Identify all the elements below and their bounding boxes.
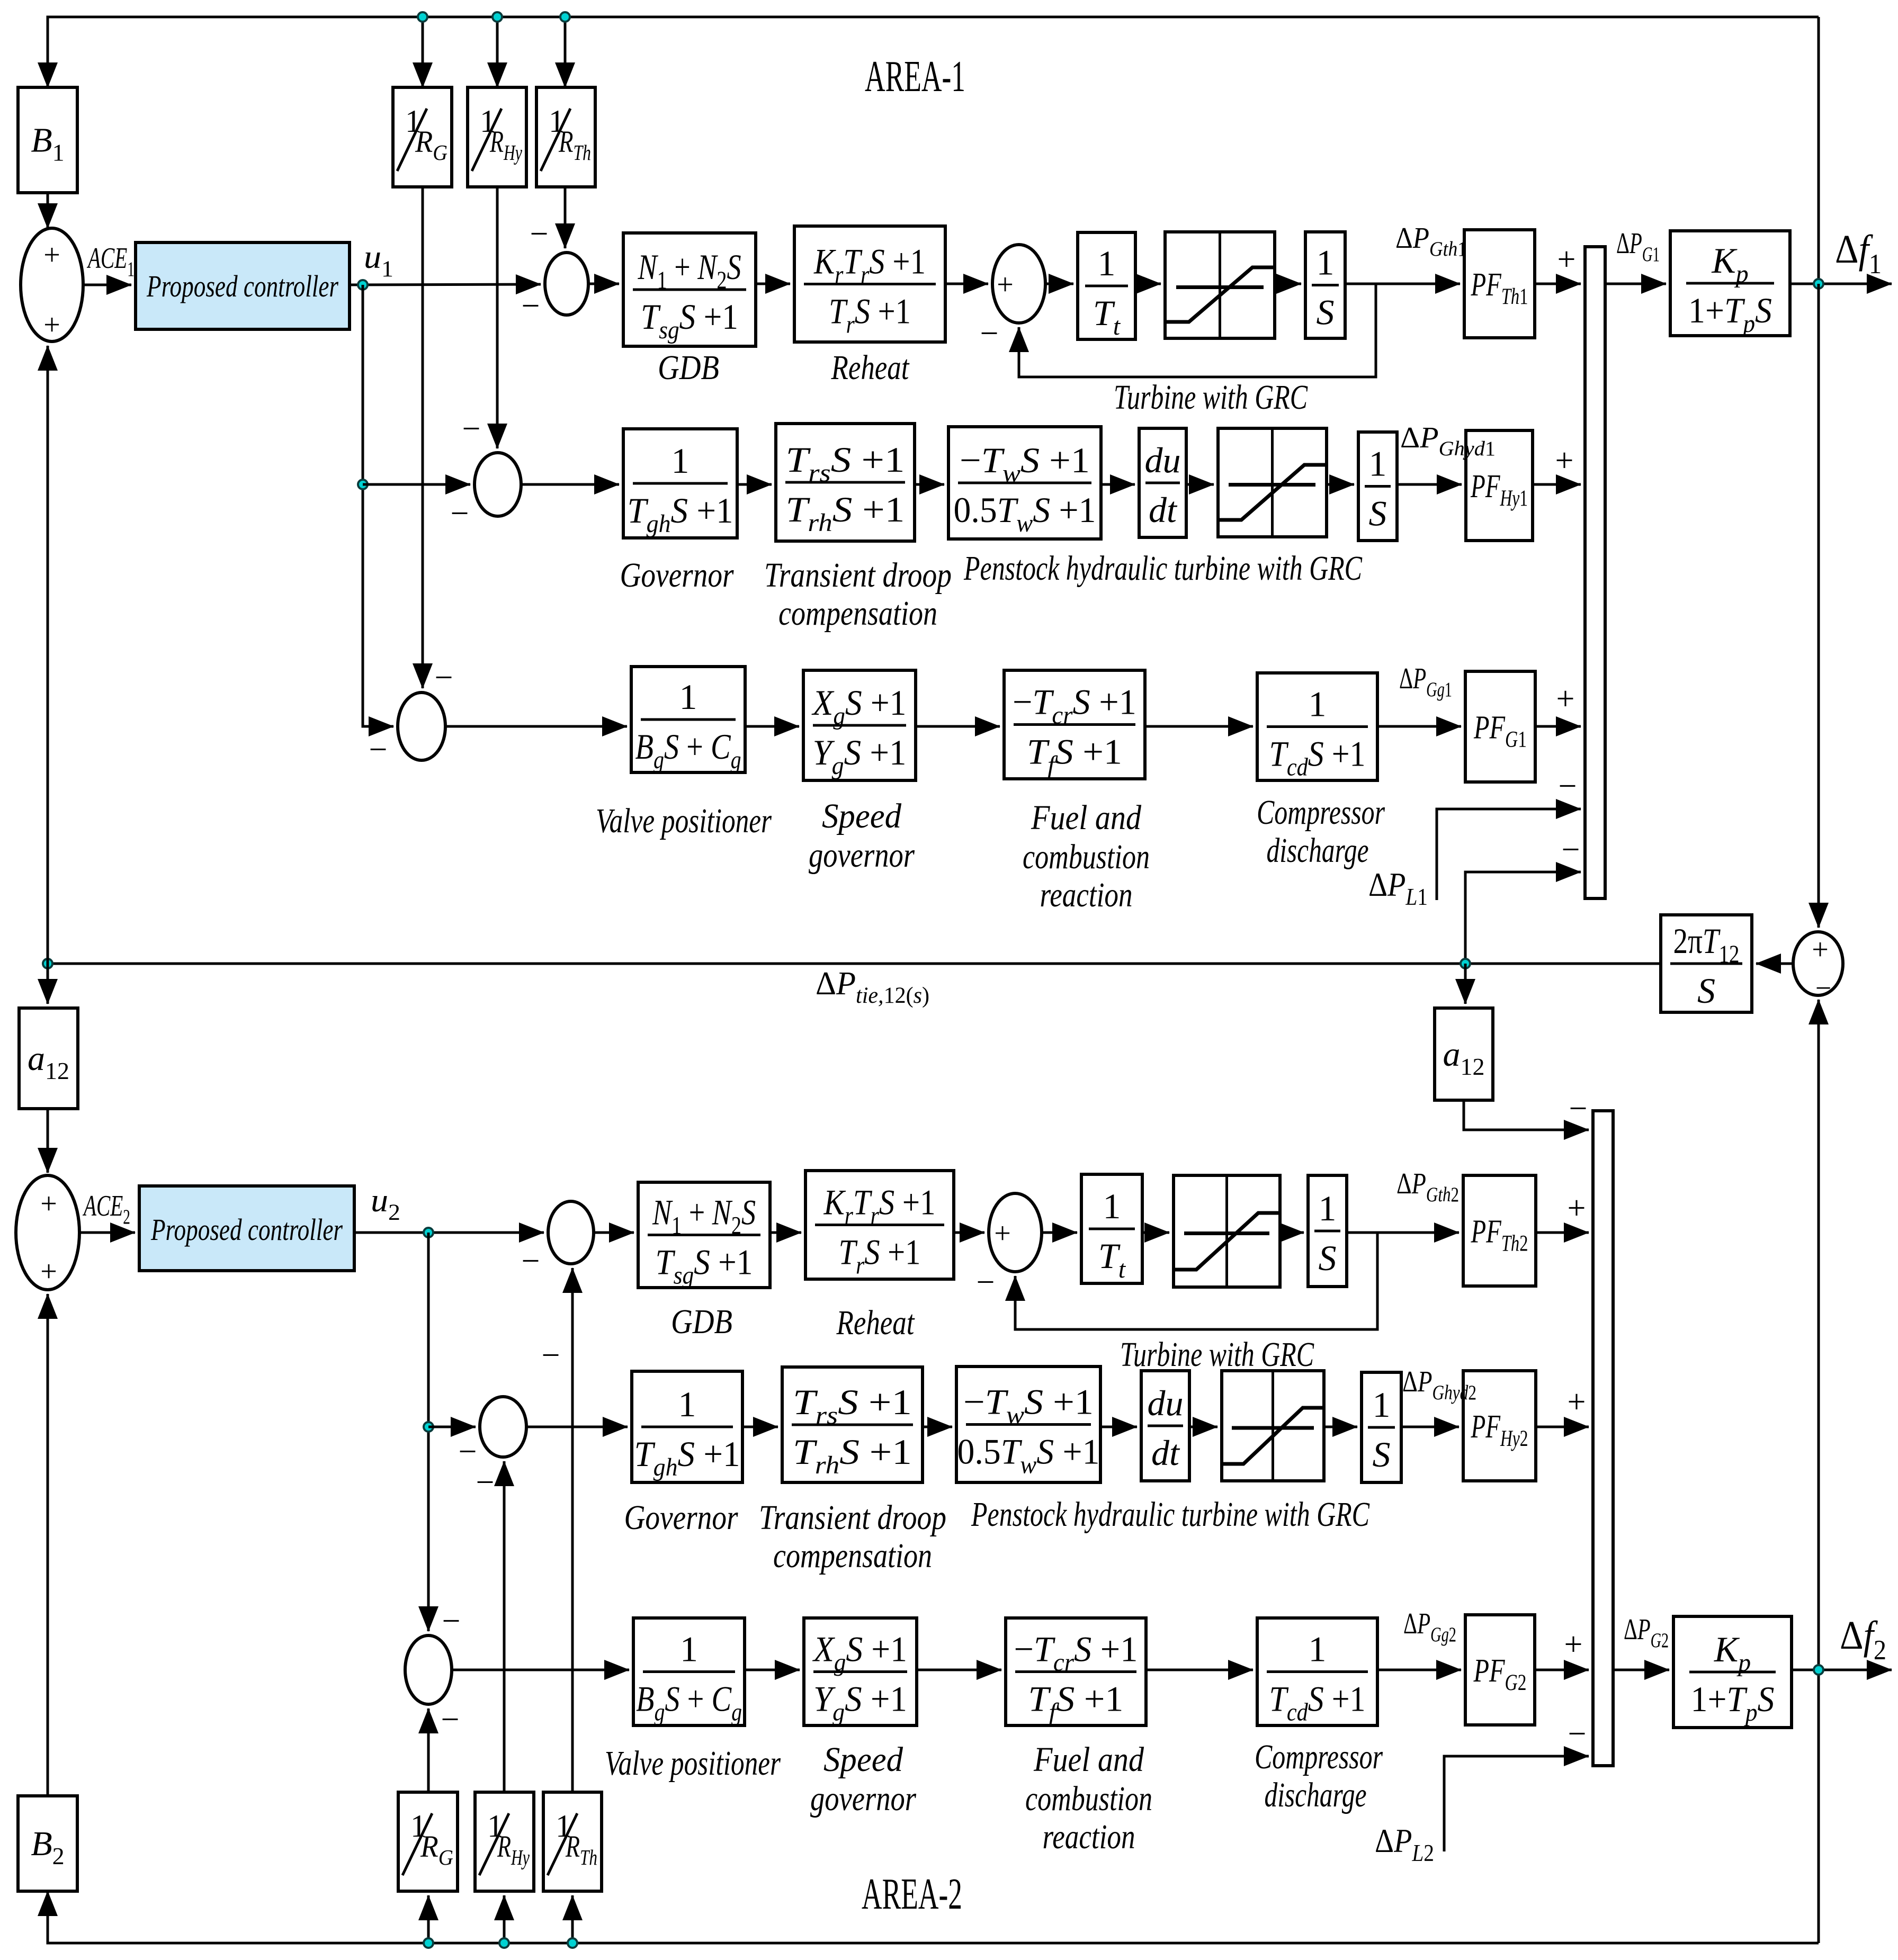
svg-text:−: − (435, 660, 453, 696)
block proposed controller 2 (139, 1186, 354, 1271)
block Speed governor area2 (804, 1618, 917, 1727)
wire B2 up to ACE2 sum (47, 1294, 49, 1796)
svg-text:Penstock hydraulic turbine wit: Penstock hydraulic turbine with GRC (971, 1495, 1369, 1534)
block integrator 1/S area1 row1 (1305, 232, 1345, 338)
label ACE1 (86, 242, 135, 281)
label minus at lower-left of row2 sum area2 (459, 1434, 477, 1470)
sum row1 area2 (548, 1201, 594, 1264)
svg-text:−: − (522, 288, 540, 324)
label DPGhyd1 (1400, 421, 1496, 460)
wire tie power into summing bar area1 (1465, 872, 1581, 964)
svg-text:du: du (1148, 1383, 1184, 1423)
wire 1/Tt to GRC saturation area2 (1142, 1231, 1169, 1234)
svg-text:−: − (1562, 832, 1580, 868)
svg-text:−: − (1559, 768, 1577, 804)
wire Reheat to turbine sum area2 (954, 1231, 984, 1234)
svg-text:−: − (1569, 1091, 1588, 1127)
label Transient droop area2 (759, 1498, 946, 1537)
svg-text:−: − (369, 732, 388, 768)
summing bar area1 (1585, 247, 1605, 898)
svg-text:S: S (1373, 1434, 1391, 1475)
svg-text:+: + (1556, 681, 1575, 717)
wire Df2 up to tie sum (1818, 1000, 1820, 1670)
label plus inside turbine sum area1 (997, 268, 1014, 301)
sum ACE2 (16, 1175, 79, 1290)
label plus top inside ACE1 sum (43, 239, 60, 272)
label Df2 (1840, 1613, 1886, 1666)
label Fuel and area1 (1031, 798, 1142, 837)
wire bottom line to 1/RTh area2 (571, 1895, 574, 1943)
label GDB area2 (671, 1302, 732, 1341)
block Reheat area2 (805, 1171, 954, 1280)
wire row3 sum to Valve positioner area2 (452, 1669, 629, 1671)
label Penstock hydraulic turbine with GRC area1 (963, 549, 1362, 588)
label Penstock hydraulic turbine with GRC area2 (971, 1495, 1369, 1534)
svg-text:1: 1 (1373, 1384, 1391, 1425)
wire bottom line to 1/RG area2 (427, 1895, 430, 1943)
wire u2 down to row3 sum area2 (427, 1233, 430, 1631)
wire PFG2 to summing bar area2 (1535, 1669, 1589, 1671)
svg-text:Valve positioner: Valve positioner (596, 802, 772, 840)
wire row2 sum to Governor (521, 483, 619, 486)
svg-text:du: du (1145, 440, 1181, 480)
svg-text:+: + (1568, 1190, 1586, 1226)
svg-text:S: S (1697, 970, 1715, 1011)
svg-text:−: − (451, 496, 469, 532)
label Reheat (831, 348, 910, 387)
svg-text:+: + (1812, 933, 1829, 966)
svg-text:discharge: discharge (1267, 831, 1369, 870)
svg-text:Compressor: Compressor (1255, 1738, 1383, 1776)
wire ACE1 sum to controller 1 (83, 284, 131, 286)
node top tap RTh (560, 12, 570, 22)
block Compressor discharge area1 (1257, 673, 1377, 781)
wire PFTh2 to summing bar area2 (1536, 1231, 1589, 1234)
wire 1/S to PFHy1 (1397, 483, 1462, 486)
label AREA-2 title (862, 1869, 962, 1919)
wire right edge Df1 line down from top corner (1818, 17, 1820, 284)
svg-text:combustion: combustion (1023, 838, 1150, 876)
label plus PFHy1 input at bar (1555, 443, 1574, 479)
wire 1/RHy output down to row2 sum (496, 187, 499, 448)
label Valve positioner area1 (596, 802, 772, 840)
label Df1 (1835, 227, 1882, 280)
wire controller 2 output to row1 sum area2 (354, 1231, 544, 1234)
block 2piT12/S (1661, 915, 1752, 1012)
wire summing bar to Kp area1 (1605, 283, 1666, 285)
svg-text:Speed: Speed (822, 797, 902, 835)
wire Reheat to turbine sum (945, 283, 988, 285)
label Turbine with GRC area2 (1120, 1335, 1314, 1374)
block B1 (18, 87, 77, 193)
wire Df1 down to tie sum (1818, 284, 1820, 928)
node bottom tap RG (424, 1938, 433, 1948)
wire Valve positioner to Speed governor area1 (745, 725, 799, 728)
svg-text:governor: governor (809, 836, 915, 875)
label discharge area1 (1267, 831, 1369, 870)
svg-text:Turbine with GRC: Turbine with GRC (1114, 378, 1308, 417)
block integrator 1/S area1 row2 (1358, 432, 1397, 541)
label minus at RHy input of row2 sum (462, 411, 481, 447)
label minus on RTh riser area2 (542, 1337, 560, 1373)
svg-text:Governor: Governor (624, 1498, 738, 1537)
block Kp area2 (1673, 1616, 1792, 1728)
label governor area1 (809, 836, 915, 875)
block GRC saturation area2 (1174, 1175, 1280, 1287)
block Speed governor area1 (803, 670, 916, 780)
svg-text:Valve positioner: Valve positioner (605, 1744, 781, 1783)
svg-text:compensation: compensation (773, 1536, 932, 1575)
svg-text:Governor: Governor (620, 556, 734, 595)
svg-text:1: 1 (1317, 242, 1335, 283)
node tie line left (43, 959, 52, 968)
wire Penstock to du/dt area2 (1100, 1426, 1137, 1428)
block Kp area1 (1670, 231, 1790, 338)
block GRC saturation area1 row2 (1218, 428, 1327, 537)
wire row2 sum to Governor area2 (526, 1426, 628, 1428)
wire bottom line to 1/RHy area2 (503, 1895, 506, 1943)
wire row1 sum to GDB (588, 283, 619, 285)
wire Kp to Df2 output (1792, 1669, 1892, 1671)
label minus a12 input at bar area2 (1569, 1091, 1588, 1127)
wire turbine sum to 1/Tt area2 (1042, 1231, 1077, 1234)
label plus inside tie sum (1812, 933, 1829, 966)
svg-text:dt: dt (1151, 1433, 1180, 1473)
label AREA-1 title (865, 52, 965, 101)
wire Speed governor to Fuel area1 (916, 725, 1000, 728)
svg-text:+: + (1555, 443, 1574, 479)
block a12 left (19, 1008, 78, 1109)
label compensation (778, 594, 937, 633)
label minus below turbine sum area1 (980, 316, 999, 352)
node bottom tap RHy (499, 1938, 509, 1948)
label DPL2 (1375, 1822, 1434, 1866)
wire 1/RG output down to row3 sum (422, 187, 424, 688)
label DPGth1 (1395, 222, 1467, 260)
label Transient droop (764, 556, 952, 595)
svg-text:−: − (462, 411, 481, 447)
label DPL1 (1368, 866, 1428, 910)
wire DPL2 into summing bar area2 (1444, 1756, 1589, 1851)
sum ACE1 (21, 228, 83, 341)
wire 1/RTh up to row1 sum area2 (571, 1268, 574, 1792)
svg-text:Transient droop: Transient droop (759, 1498, 946, 1537)
svg-text:S: S (1317, 292, 1335, 332)
wire Governor to Transient droop area2 (742, 1426, 778, 1428)
label plus PFTh1 input at bar (1557, 241, 1576, 277)
svg-text:+: + (997, 268, 1014, 301)
wire 1/S to PFHy2 (1401, 1426, 1459, 1428)
block PFG1 (1465, 671, 1535, 782)
wire right edge Df2 line down to bottom corner (1818, 1670, 1820, 1943)
block 1/RTh area1 (536, 87, 595, 187)
node Df1 (1814, 279, 1823, 289)
svg-text:AREA-2: AREA-2 (862, 1869, 962, 1919)
svg-text:Fuel and: Fuel and (1033, 1740, 1144, 1779)
label minus at lower-left of row1 sum area2 (522, 1243, 540, 1279)
wire 1/S to PFTh2 (1347, 1231, 1459, 1234)
svg-text:−: − (530, 216, 549, 252)
node u2 (424, 1228, 433, 1237)
block 1/RHy area1 (468, 87, 526, 187)
sum tie line (1793, 932, 1843, 995)
node bottom tap RTh (568, 1938, 577, 1948)
svg-text:Transient droop: Transient droop (764, 556, 952, 595)
svg-text:Compressor: Compressor (1257, 793, 1385, 832)
wire u2 branch to row2 sum area2 (428, 1426, 476, 1428)
wire tie branch down to a12 right (1464, 964, 1467, 1004)
block 1/RG area1 (393, 87, 452, 187)
label DPG1 (1616, 227, 1660, 266)
label minus at RHy input of row2 sum area2 (476, 1464, 495, 1500)
wire a12 right to summing bar area2 (1464, 1100, 1589, 1130)
wire top line to 1/RTh block (564, 17, 567, 87)
wire a12 to ACE2 sum (47, 1109, 49, 1173)
wire 1/RTh output down to row1 sum (564, 187, 567, 248)
svg-text:Proposed controller: Proposed controller (146, 269, 338, 303)
svg-text:−: − (522, 1243, 540, 1279)
wire GRC feedback to turbine sum area2 (1015, 1233, 1377, 1329)
wire GRC feedback to turbine sum area1 (1019, 284, 1376, 377)
wire Compressor to PFG1 (1377, 725, 1461, 728)
block GDB area2 (638, 1182, 770, 1290)
label minus at lower-left of row2 sum (451, 496, 469, 532)
label minus at lower-left of row3 sum (369, 732, 388, 768)
block GDB area1 (623, 233, 756, 346)
wire row1 sum to GDB area2 (594, 1231, 634, 1234)
label governor area2 (810, 1779, 916, 1818)
label combustion area2 (1025, 1779, 1152, 1818)
label Fuel and area2 (1033, 1740, 1144, 1779)
node top tap RG (418, 12, 427, 22)
label DPGg2 (1403, 1607, 1456, 1646)
svg-text:−: − (441, 1702, 460, 1738)
svg-text:S: S (1319, 1238, 1337, 1278)
node top tap RHy (493, 12, 502, 22)
block proposed controller 1 (136, 242, 350, 329)
block PFG2 (1465, 1615, 1535, 1725)
label reaction area2 (1043, 1818, 1135, 1856)
wire 1/S to PFTh1 (1345, 283, 1460, 285)
label GDB (658, 348, 719, 387)
label Speed area1 (822, 797, 902, 835)
wire DPL1 into summing bar (1437, 809, 1581, 900)
svg-text:Penstock hydraulic turbine wit: Penstock hydraulic turbine with GRC (963, 549, 1362, 588)
wire tie sum to 2piT12 block (1756, 963, 1793, 965)
svg-text:−: − (459, 1434, 477, 1470)
block Valve positioner area2 (633, 1618, 745, 1727)
label Governor area1 (620, 556, 734, 595)
label minus DPL2 input at bar (1568, 1716, 1587, 1752)
wire row3 sum to Valve positioner (445, 725, 627, 728)
wire GDB to Reheat (756, 283, 790, 285)
wire Transient droop to Penstock area2 (923, 1426, 952, 1428)
node u1 (358, 280, 368, 290)
wire 1/RG up to row3 sum area2 (427, 1709, 430, 1792)
label minus DPL1 input at bar (1559, 768, 1577, 804)
label Reheat area2 (836, 1303, 915, 1342)
wire top feedback line from Df1 to B1 and droop taps (48, 17, 1819, 87)
block Valve positioner area1 (631, 667, 745, 774)
wire saturation to integrator area1 row1 (1275, 283, 1301, 285)
label plus bottom inside ACE1 sum (43, 309, 60, 341)
block 1/RG area2 (398, 1792, 458, 1891)
wire top line to 1/RHy block (496, 17, 499, 87)
label minus at u2 input of row3 sum area2 (442, 1603, 461, 1639)
svg-text:+: + (40, 1188, 57, 1220)
svg-text:−: − (977, 1264, 995, 1300)
label minus at RG input of row3 sum area2 (441, 1702, 460, 1738)
wire Kp to Df1 output (1790, 283, 1892, 285)
wire Transient droop to Penstock area1 (915, 483, 944, 486)
label plus PFG1 input at bar (1556, 681, 1575, 717)
wire saturation to 1/S area2 row2 (1324, 1426, 1357, 1428)
sum turbine area1 (992, 245, 1045, 323)
label DPGhyd2 (1402, 1365, 1476, 1404)
svg-text:+: + (1557, 241, 1576, 277)
label plus top inside ACE2 sum (40, 1188, 57, 1220)
svg-text:+: + (43, 239, 60, 272)
svg-text:−: − (1815, 972, 1831, 1004)
sum row2 area1 (475, 453, 521, 516)
summing bar area2 (1593, 1111, 1613, 1766)
wire controller 1 output to row1 sum (350, 284, 541, 285)
svg-text:Fuel and: Fuel and (1031, 798, 1142, 837)
block 1/Tt area2 (1081, 1174, 1142, 1283)
svg-text:GDB: GDB (671, 1302, 732, 1341)
label DPG2 (1624, 1613, 1669, 1652)
block integrator 1/S area2 row2 (1362, 1372, 1401, 1482)
block Transient droop area2 (782, 1367, 923, 1482)
label plus PFHy2 input at bar (1568, 1384, 1586, 1420)
svg-text:1: 1 (672, 440, 690, 481)
svg-text:1: 1 (1369, 444, 1387, 484)
svg-text:S: S (1369, 493, 1387, 534)
svg-text:reaction: reaction (1043, 1818, 1135, 1856)
wire PFG1 to summing bar (1535, 725, 1581, 728)
svg-text:combustion: combustion (1025, 1779, 1152, 1818)
svg-text:−: − (542, 1337, 560, 1373)
svg-text:−: − (980, 316, 999, 352)
wire turbine sum to 1/Tt (1045, 283, 1073, 285)
node u2 row2 branch (424, 1422, 433, 1432)
svg-text:1: 1 (678, 1384, 696, 1424)
block Governor area2 (632, 1371, 742, 1482)
wire PFTh1 to summing bar (1535, 283, 1581, 285)
label minus inside tie sum (1815, 972, 1831, 1004)
svg-text:1: 1 (1309, 684, 1327, 724)
wire u1 branch to row2 sum (363, 483, 470, 486)
svg-text:1: 1 (1309, 1629, 1327, 1669)
wire Compressor to PFG2 (1377, 1669, 1461, 1671)
label Valve positioner area2 (605, 1744, 781, 1783)
label u1 (364, 239, 393, 282)
block 1/RHy area2 (475, 1792, 534, 1891)
sum row3 area2 (405, 1635, 452, 1704)
wire top line to 1/RG block (422, 17, 424, 87)
svg-text:1: 1 (1098, 243, 1116, 283)
label minus at lower-left of row1 sum (522, 288, 540, 324)
svg-text:governor: governor (810, 1779, 916, 1818)
wire 1/Tt to GRC saturation area1 (1135, 283, 1161, 285)
wire bottom feedback line from Df2 to B2 and droop taps (48, 1891, 1819, 1943)
label plus inside turbine sum area2 (994, 1217, 1011, 1250)
sum row1 area1 (545, 253, 588, 315)
svg-text:reaction: reaction (1040, 876, 1133, 914)
label plus PFG2 input at bar (1564, 1626, 1583, 1662)
block Penstock area2 (956, 1366, 1100, 1482)
wire 1/RHy up to row2 sum area2 (503, 1461, 506, 1792)
block PFHy2 (1463, 1371, 1536, 1481)
svg-text:+: + (1568, 1384, 1586, 1420)
svg-text:dt: dt (1149, 490, 1178, 530)
block 1/RTh area2 (543, 1792, 602, 1891)
label minus tie input at bar area1 (1562, 832, 1580, 868)
wire 2piT12 output tie line to left edge (48, 963, 1661, 965)
svg-text:+: + (40, 1255, 57, 1288)
sum turbine area2 (989, 1193, 1042, 1272)
svg-text:Speed: Speed (823, 1740, 903, 1779)
block Governor area1 (623, 429, 737, 538)
block PFTh1 (1464, 230, 1535, 338)
label combustion area1 (1023, 838, 1150, 876)
block Fuel area2 (1006, 1618, 1146, 1727)
wire PFHy2 to summing bar area2 (1536, 1426, 1589, 1428)
wire Governor to Transient droop area1 (737, 483, 772, 486)
label DPtie12s (816, 966, 929, 1008)
sum row3 area1 (398, 693, 445, 760)
label Turbine with GRC area1 (1114, 378, 1308, 417)
svg-text:1: 1 (679, 677, 697, 717)
wire Penstock to du/dt area1 (1101, 483, 1135, 486)
label DPGg1 (1399, 662, 1452, 701)
node u1 row2 branch (358, 480, 368, 489)
wire saturation to integrator area2 row1 (1280, 1231, 1304, 1234)
wire u1 down to row3 sum (363, 285, 393, 726)
block Penstock area1 (948, 427, 1101, 539)
block du/dt area1 (1139, 428, 1186, 537)
label Governor area2 (624, 1498, 738, 1537)
svg-text:GDB: GDB (658, 348, 719, 387)
wire GDB to Reheat area2 (770, 1231, 801, 1234)
label DPGth2 (1396, 1167, 1459, 1206)
svg-text:Reheat: Reheat (831, 348, 910, 387)
block Reheat area1 (794, 226, 945, 342)
label Speed area2 (823, 1740, 903, 1779)
svg-text:+: + (1564, 1626, 1583, 1662)
label minus below turbine sum area2 (977, 1264, 995, 1300)
wire Speed governor to Fuel area2 (917, 1669, 1001, 1671)
wire Valve positioner to Speed governor area2 (745, 1669, 800, 1671)
wire du/dt to GRC saturation area2 row2 (1189, 1426, 1217, 1428)
svg-text:Turbine with GRC: Turbine with GRC (1120, 1335, 1314, 1374)
block B2 (18, 1796, 77, 1891)
label ACE2 (82, 1190, 130, 1228)
svg-text:+: + (43, 309, 60, 341)
wire ACE2 sum to controller 2 (79, 1231, 135, 1234)
wire summing bar to Kp area2 (1613, 1669, 1669, 1671)
svg-text:1: 1 (1319, 1188, 1337, 1228)
label plus bottom inside ACE2 sum (40, 1255, 57, 1288)
label Compressor area2 (1255, 1738, 1383, 1776)
wire B1 to ACE1 sum (47, 193, 49, 228)
label compensation area2 (773, 1536, 932, 1575)
svg-text:Proposed controller: Proposed controller (150, 1212, 343, 1247)
block du/dt area2 (1141, 1371, 1189, 1481)
node Df2 (1814, 1665, 1823, 1675)
block PFTh2 (1463, 1175, 1536, 1286)
wire tie line up to ACE1 sum (47, 346, 49, 964)
